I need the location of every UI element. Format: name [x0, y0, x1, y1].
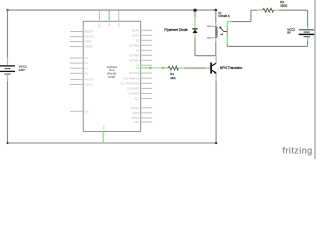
svg-text:D2: D2	[136, 38, 140, 42]
svg-text:A4/SDA: A4/SDA	[85, 78, 94, 82]
svg-text:4.8V: 4.8V	[19, 68, 25, 72]
svg-text:FRS2B-S: FRS2B-S	[218, 14, 230, 18]
svg-text:AREF: AREF	[85, 40, 92, 44]
fritzing watermark	[283, 146, 313, 156]
wire R2 to VCC2 top	[279, 10, 308, 30]
transistor Q1 NPN	[210, 58, 243, 74]
sheet right border	[314, 0, 316, 159]
wire left vertical VCC1 top	[7, 10, 9, 66]
wire R1 to transistor base with red joint dot	[185, 67, 211, 69]
svg-text:D0/RX: D0/RX	[132, 28, 140, 32]
IC left pins RESET block	[70, 30, 95, 49]
svg-text:A5/SCL: A5/SCL	[85, 83, 94, 87]
wire VCC1 bottom to ground rail	[7, 74, 9, 143]
relay K1 coil red stub top	[207, 25, 216, 27]
wire top rail from VCC1 to relay column	[6, 9, 217, 12]
svg-text:RESET: RESET	[85, 30, 94, 34]
pin GND bottom green wire to ground rail	[102, 125, 105, 143]
svg-text:D6 PWM: D6 PWM	[129, 58, 139, 62]
svg-text:GND: GND	[102, 125, 105, 131]
svg-text:ICSP: ICSP	[108, 75, 115, 79]
wire emitter riser to ground rail	[215, 74, 217, 143]
svg-text:A1: A1	[85, 61, 89, 65]
pin 3V3 top	[99, 10, 102, 27]
svg-text:NPN Transistor: NPN Transistor	[220, 66, 243, 70]
svg-text:SCL: SCL	[134, 97, 140, 101]
pin VIN top	[118, 10, 121, 27]
svg-text:D3 PWM: D3 PWM	[129, 43, 139, 47]
svg-text:D1/TX: D1/TX	[132, 33, 140, 37]
svg-text:1kΩ: 1kΩ	[170, 76, 176, 80]
svg-text:SDA: SDA	[134, 120, 140, 124]
pin 5V top with green wire to rail	[109, 10, 112, 26]
svg-text:MOSI2: MOSI2	[131, 116, 140, 120]
wire bottom ground rail	[6, 142, 217, 144]
svg-text:D8: D8	[136, 66, 140, 70]
relay K1 coil red stub bottom	[207, 37, 216, 39]
svg-text:220Ω: 220Ω	[280, 4, 288, 8]
svg-text:VIN: VIN	[118, 23, 121, 27]
relay K1 label	[218, 11, 230, 18]
svg-text:A0: A0	[85, 56, 89, 60]
resistor R2	[263, 0, 289, 12]
relay K1 right contact column	[226, 22, 228, 47]
svg-text:3V3: 3V3	[99, 23, 102, 28]
svg-text:RESET2: RESET2	[85, 35, 96, 39]
svg-text:D10 PWM/SS: D10 PWM/SS	[123, 76, 139, 80]
IC right pins D9-D13 group	[120, 71, 152, 101]
resistor R1	[168, 66, 185, 80]
op IC U1 Arduino Uno box	[83, 21, 140, 131]
svg-text:A2: A2	[85, 66, 89, 70]
svg-text:fritzing: fritzing	[283, 146, 313, 156]
wire relay coil bottom to collector node junction	[215, 38, 217, 58]
svg-text:Flywheel Diode: Flywheel Diode	[164, 28, 187, 32]
IC right pins D0-D7	[129, 28, 152, 67]
IC U1 center label Arduino Uno (Rev3) ICSP	[107, 65, 118, 79]
node junction dot on top rail above diode	[193, 9, 196, 12]
svg-text:D11 PWM/MOSI: D11 PWM/MOSI	[120, 81, 139, 85]
svg-text:D12/MISO: D12/MISO	[127, 87, 139, 91]
pin D8 green with wire to R1	[136, 66, 168, 70]
svg-text:D9 PWM: D9 PWM	[129, 71, 139, 75]
svg-text:D5 PWM: D5 PWM	[129, 53, 139, 57]
svg-text:D4: D4	[136, 48, 140, 52]
svg-text:SCK2: SCK2	[133, 111, 140, 115]
IC left pins A0-A5 and NC	[70, 56, 94, 113]
diode D1 flywheel with label	[164, 10, 197, 37]
svg-text:MISO2: MISO2	[131, 106, 140, 110]
battery VCC1 4.8V	[0, 64, 27, 74]
wire diode bottom to collector node	[195, 38, 216, 56]
svg-text:IOREF: IOREF	[85, 45, 93, 49]
svg-text:A3: A3	[85, 71, 89, 75]
battery VCC2 9V	[287, 27, 314, 36]
wire VCC2 bottom to relay bottom contact	[227, 37, 307, 47]
svg-text:9V: 9V	[287, 31, 291, 35]
svg-text:5V: 5V	[109, 23, 112, 26]
relay K1 column wire from rail to coil	[215, 10, 217, 27]
relay K1 switch	[219, 27, 227, 35]
svg-text:D13/SCK: D13/SCK	[129, 92, 140, 96]
wire relay top contact to R2	[227, 10, 262, 21]
svg-text:N/C: N/C	[85, 109, 90, 113]
IC right pins ICSP group	[131, 106, 152, 124]
relay K1 coil	[216, 27, 217, 38]
